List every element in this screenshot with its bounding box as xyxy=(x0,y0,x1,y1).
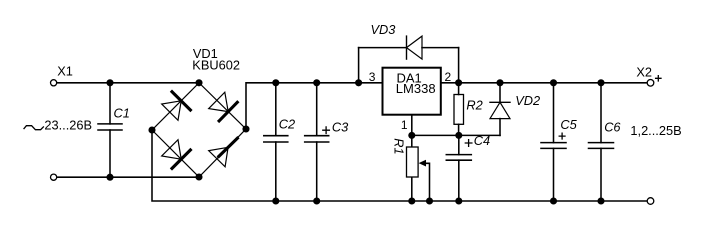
diode VD3 (protection across regulator) xyxy=(359,36,459,83)
potentiometer R1 xyxy=(407,147,430,201)
bridge diamond edge top-right xyxy=(199,83,246,129)
wire top rail from X1 to bridge top vertex xyxy=(57,82,199,84)
capacitor C6 xyxy=(589,83,614,201)
junction C5 bottom xyxy=(550,197,557,204)
diode VD2 (adj protection) xyxy=(490,83,510,136)
resistor R2 xyxy=(454,83,464,136)
junction bridge right vertex xyxy=(242,125,249,132)
svg-text:VD2: VD2 xyxy=(515,93,540,108)
op-amp regulator DA1 box xyxy=(383,68,441,115)
capacitor C5 (electrolytic) xyxy=(541,83,566,201)
wire bottom from X1 to bridge bottom vertex xyxy=(57,176,199,178)
wire adj horizontal xyxy=(412,134,500,136)
wire pin2 of DA1 xyxy=(442,82,459,84)
junction C6 bottom xyxy=(597,197,604,204)
svg-text:23...26В: 23...26В xyxy=(44,117,92,132)
junction R1 bottom xyxy=(408,197,415,204)
terminal X1 bottom xyxy=(51,174,57,180)
junction C3 top xyxy=(313,79,320,86)
bridge diamond edge bottom-right xyxy=(199,129,246,177)
bridge diode top-left (anode at left vertex, cathode at top vertex) xyxy=(162,92,191,121)
capacitor C1 xyxy=(98,83,122,177)
svg-text:2: 2 xyxy=(445,70,452,84)
junction bridge bottom vertex xyxy=(195,173,202,180)
junction C1 top xyxy=(106,79,113,86)
plus sign C5 xyxy=(559,133,565,139)
svg-text:R1: R1 xyxy=(392,138,407,154)
svg-text:LM338: LM338 xyxy=(396,81,436,96)
svg-text:X2: X2 xyxy=(636,64,652,79)
node pin2 xyxy=(455,79,462,86)
junction C4 bottom xyxy=(455,197,462,204)
svg-text:R2: R2 xyxy=(466,97,482,112)
capacitor C2 xyxy=(264,83,288,201)
bridge diode bottom-left (anode at left vertex, cathode at bottom vertex) xyxy=(162,140,191,169)
junction C2 top xyxy=(272,79,279,86)
bridge diode top-right (anode at top vertex, cathode at right vertex) xyxy=(209,92,238,121)
junction C5 top xyxy=(550,79,557,86)
bridge diamond edge bottom-left xyxy=(152,130,199,177)
junction C3 bottom xyxy=(313,197,320,204)
svg-text:3: 3 xyxy=(369,70,376,84)
junction VD2 top xyxy=(496,79,503,86)
svg-text:1,2...25В: 1,2...25В xyxy=(630,123,681,138)
svg-text:C6: C6 xyxy=(604,119,621,134)
wire pin1 of DA1 down xyxy=(411,116,413,147)
plus sign C4 xyxy=(465,140,472,147)
svg-text:C5: C5 xyxy=(560,117,577,132)
svg-text:KBU602: KBU602 xyxy=(192,58,240,73)
wire positive rail from right vertex up and along top xyxy=(246,83,647,129)
svg-text:C1: C1 xyxy=(114,105,130,120)
svg-text:C3: C3 xyxy=(332,119,348,134)
plus sign X2 xyxy=(656,76,661,81)
capacitor C3 (electrolytic) xyxy=(305,83,329,201)
svg-text:C4: C4 xyxy=(474,133,490,148)
junction C6 top xyxy=(597,79,604,86)
AC source tilde symbol xyxy=(24,126,43,130)
terminal X1 top xyxy=(51,80,57,86)
terminal X2 bottom xyxy=(647,198,654,205)
node pin1 / adj xyxy=(408,132,415,139)
capacitor C4 (electrolytic) xyxy=(446,135,471,201)
plus sign C3 xyxy=(323,127,330,134)
junction bridge left vertex xyxy=(148,126,155,133)
svg-text:X1: X1 xyxy=(57,64,73,79)
junction bridge top vertex xyxy=(195,79,202,86)
svg-text:VD3: VD3 xyxy=(371,22,396,37)
node pin3 of DA1 xyxy=(355,79,362,86)
svg-text:C2: C2 xyxy=(279,117,295,132)
wire negative rail from left vertex down and along bottom xyxy=(152,130,647,201)
junction C1 bottom xyxy=(106,174,113,181)
svg-text:1: 1 xyxy=(401,118,408,132)
terminal X2 top xyxy=(647,80,654,87)
junction R1 wiper bottom xyxy=(426,197,433,204)
bridge diode bottom-right (anode at bottom vertex, cathode at right vertex) xyxy=(209,138,238,167)
node R2 bottom xyxy=(455,132,462,139)
junction C2 bottom xyxy=(272,197,279,204)
wire pin3 to DA1 xyxy=(359,82,382,84)
bridge diamond edge top-left xyxy=(152,83,199,130)
